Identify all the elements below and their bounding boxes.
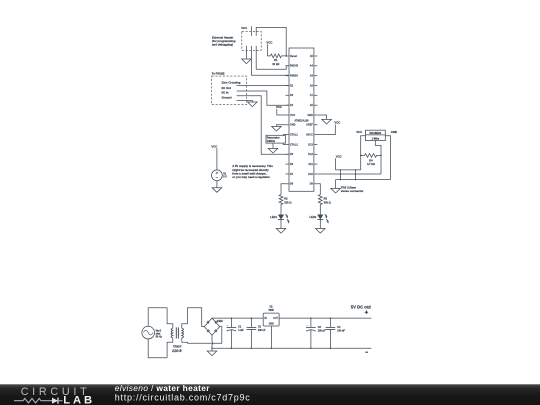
junction U1 GND rail xyxy=(271,347,273,349)
wire XTAL2 to resonator xyxy=(283,143,285,144)
wire XTAL1 to resonator xyxy=(283,134,285,137)
svg-text:D7: D7 xyxy=(290,173,294,176)
regulator U1 7805 body xyxy=(263,313,279,326)
svg-text:D9: D9 xyxy=(310,183,314,186)
sensor U3 DS18B20 body xyxy=(365,130,385,140)
wire D9 to R3 xyxy=(317,184,320,195)
svg-text:To PS02B: To PS02B xyxy=(212,71,225,75)
svg-text:Reset: Reset xyxy=(290,55,297,58)
label C3 100 uF xyxy=(318,326,326,333)
ground (U2 left) xyxy=(272,126,282,131)
svg-text:LED2: LED2 xyxy=(310,215,317,219)
svg-text:VCC: VCC xyxy=(211,144,217,148)
label C2 100 nF xyxy=(258,326,266,333)
svg-text:I/O In: I/O In xyxy=(222,91,229,95)
svg-text:D8: D8 xyxy=(290,183,294,186)
label C4 100 nF xyxy=(337,326,345,333)
wire resonator ground stem xyxy=(272,143,274,148)
svg-text:PMISO: PMISO xyxy=(290,75,298,78)
svg-text:7805: 7805 xyxy=(268,309,274,312)
U2 right pin stubs xyxy=(314,56,318,184)
svg-text:Resonator: Resonator xyxy=(267,136,280,140)
label TRNSF 220:5 xyxy=(172,345,182,353)
label TRS 3.5mm stereo connector xyxy=(341,185,365,193)
svg-text:10 kΩ: 10 kΩ xyxy=(272,62,279,66)
op-amp U2 ATMEGA168 body xyxy=(289,48,314,191)
svg-text:DBR: DBR xyxy=(217,319,223,323)
LED2 xyxy=(317,214,328,223)
capacitor C4 100 nF xyxy=(326,318,336,348)
wire Ground net xyxy=(237,100,253,102)
svg-text:VCC: VCC xyxy=(276,105,282,109)
svg-text:GND: GND xyxy=(290,124,296,127)
svg-text:A0: A0 xyxy=(310,104,314,107)
svg-text:and debugging): and debugging) xyxy=(212,43,233,47)
junction R4 right xyxy=(380,155,382,157)
svg-text:100 nF: 100 nF xyxy=(337,330,345,333)
svg-text:ATMEGA168: ATMEGA168 xyxy=(294,120,309,123)
svg-text:C3: C3 xyxy=(318,326,322,329)
wire R2 to LED1 xyxy=(280,205,282,215)
svg-text:OUT: OUT xyxy=(273,318,278,320)
junction Reset node xyxy=(285,55,287,57)
svg-text:AREF: AREF xyxy=(306,124,313,127)
wire I/O Out to D4 xyxy=(237,91,289,105)
wire VCC to U2 xyxy=(277,109,286,115)
note: External Header label xyxy=(212,35,236,46)
junction R4 left xyxy=(360,155,362,157)
svg-text:100 nF: 100 nF xyxy=(258,329,266,332)
wire VCC to R1 xyxy=(267,44,270,56)
resonator X1 body xyxy=(266,135,286,143)
wire I/O In to D5 xyxy=(237,96,289,155)
ground (header) xyxy=(242,59,252,64)
wire TRS data from U2 D10 xyxy=(317,173,381,175)
svg-text:I/O Out: I/O Out xyxy=(222,86,231,90)
note: 5V supply comment xyxy=(232,164,273,179)
wire Zero Crossing to D2 xyxy=(237,85,289,87)
svg-text:GND: GND xyxy=(391,130,397,134)
svg-text:330 Ω: 330 Ω xyxy=(284,200,291,204)
svg-text:5V DC out: 5V DC out xyxy=(351,305,372,310)
svg-text:http://circuitlab.com/c7d7p9c: http://circuitlab.com/c7d7p9c xyxy=(115,392,251,402)
label plus terminal xyxy=(365,311,368,314)
U2 left pin labels xyxy=(290,55,298,186)
svg-text:IN: IN xyxy=(264,318,267,320)
svg-text:330 Ω: 330 Ω xyxy=(324,200,331,204)
wire R3 to LED2 xyxy=(319,205,321,215)
svg-text:4.7 kΩ: 4.7 kΩ xyxy=(367,162,375,166)
svg-text:A3: A3 xyxy=(310,75,314,78)
wire DS18B20 DQ xyxy=(375,141,381,174)
svg-text:D3: D3 xyxy=(290,94,294,97)
connector J2 TRS contacts xyxy=(340,169,356,180)
wire VCC to V1 xyxy=(216,148,218,170)
wire Vac1 top to transformer xyxy=(148,308,167,327)
wire Vac1 bottom to transformer xyxy=(148,339,167,358)
svg-text:XTAL2: XTAL2 xyxy=(290,143,298,146)
ground (resonator) xyxy=(268,148,278,153)
U1 pin labels xyxy=(264,318,278,326)
resistor R1 xyxy=(270,54,286,58)
junction bridge minus rail xyxy=(211,347,213,349)
svg-text:A2: A2 xyxy=(310,84,314,87)
svg-text:D6: D6 xyxy=(290,163,294,166)
AC source Vac1 xyxy=(142,326,163,339)
rectifier DBR xyxy=(204,318,219,335)
svg-text:VCC: VCC xyxy=(241,26,247,30)
wire MISO header to chip xyxy=(251,74,289,76)
wire transformer to bridge AC2 xyxy=(187,327,221,344)
wire U2 GND right xyxy=(317,115,326,119)
ground (bridge) xyxy=(207,351,217,356)
ground (U2 right) xyxy=(322,119,332,124)
label U1 7805 xyxy=(268,306,274,312)
svg-text:R3: R3 xyxy=(324,197,328,201)
connector J1 dashed outline xyxy=(242,31,261,50)
wire header to Reset net xyxy=(256,27,286,56)
capacitor C2 100 nF xyxy=(247,318,257,348)
svg-text:1-Wire: 1-Wire xyxy=(371,137,379,140)
wire TRS tip xyxy=(336,158,361,170)
svg-text:GND: GND xyxy=(307,114,313,117)
LED1 xyxy=(278,214,289,223)
wire U1 GND xyxy=(271,326,273,348)
svg-text:5 V: 5 V xyxy=(223,176,227,179)
svg-text:VCC: VCC xyxy=(336,154,342,158)
capacitor C1 1 mF xyxy=(227,318,237,348)
label R3 330 xyxy=(324,197,331,205)
svg-text:A5: A5 xyxy=(310,55,314,58)
svg-text:Ground: Ground xyxy=(222,95,232,99)
wire VCC to AVCC xyxy=(317,125,335,135)
wire transformer to bridge AC1 xyxy=(187,308,204,327)
logo resistor-diode squiggle xyxy=(14,398,63,404)
U2 right pin labels xyxy=(306,55,314,186)
svg-text:Zero Crossing: Zero Crossing xyxy=(222,80,241,84)
svg-text:A1: A1 xyxy=(310,94,314,97)
svg-text:D2: D2 xyxy=(290,84,294,87)
wire bridge minus with hop xyxy=(211,335,214,348)
transformer T1 xyxy=(167,308,187,358)
svg-text:D11: D11 xyxy=(308,163,313,166)
svg-text:D12: D12 xyxy=(308,153,313,156)
label minus terminal xyxy=(365,351,368,353)
ground (V1) xyxy=(212,188,222,193)
svg-text:R2: R2 xyxy=(284,197,288,201)
ground (PS02B) xyxy=(248,102,258,107)
svg-text:1 mF: 1 mF xyxy=(238,329,244,332)
resistor R2 xyxy=(279,194,283,205)
label C1 1 mF xyxy=(238,326,244,333)
wire top rail U1 to output xyxy=(279,317,371,319)
wire MOSI header to chip xyxy=(256,66,289,70)
svg-text:DS18B20: DS18B20 xyxy=(369,131,381,135)
wire bottom rail xyxy=(212,347,371,349)
label R1 10 k xyxy=(272,58,279,66)
svg-text:AVCC: AVCC xyxy=(306,134,313,137)
U2 left pin stubs xyxy=(286,56,290,184)
svg-text:D13: D13 xyxy=(308,143,313,146)
svg-text:VCC: VCC xyxy=(356,130,362,134)
wire LED2 to ground xyxy=(319,219,321,228)
ground (LED1) xyxy=(276,229,286,234)
wire DS18B20 GND to sleeve xyxy=(385,136,390,180)
svg-text:C2: C2 xyxy=(258,326,262,329)
label DS18B20 1-Wire xyxy=(369,131,381,140)
svg-text:D10: D10 xyxy=(308,173,313,176)
header top pin stubs J1 xyxy=(250,26,252,36)
label R2 330 xyxy=(284,197,291,205)
wire top rail to U1 xyxy=(212,317,263,319)
svg-text:R1: R1 xyxy=(274,58,278,62)
wire TRS ground stem xyxy=(335,180,337,189)
voltage source V1 5 V xyxy=(212,170,228,181)
capacitor C3 100 uF xyxy=(306,318,316,348)
svg-text:16MHz: 16MHz xyxy=(267,139,276,143)
resistor R3 xyxy=(318,194,322,205)
svg-text:VCC: VCC xyxy=(334,121,340,125)
svg-text:C4: C4 xyxy=(337,326,341,329)
label R4 4.7 k xyxy=(367,158,375,165)
svg-text:stereo connector: stereo connector xyxy=(341,189,365,193)
label Resonator 16MHz xyxy=(267,136,280,144)
wire TRS sleeve xyxy=(336,179,391,181)
ground (LED2) xyxy=(316,229,326,234)
svg-text:LED1: LED1 xyxy=(270,215,277,219)
connector PS02B dashed outline xyxy=(212,76,247,105)
svg-text:D5: D5 xyxy=(290,153,294,156)
wire V1 to ground xyxy=(216,181,218,188)
resistor R4 xyxy=(361,154,381,158)
svg-text:220:5: 220:5 xyxy=(172,349,181,353)
wire D8 to R2 xyxy=(281,184,286,195)
wire bridge ground stem xyxy=(211,348,213,351)
svg-text:R4: R4 xyxy=(369,158,373,162)
svg-text:100 µF: 100 µF xyxy=(318,330,326,333)
svg-text:GND: GND xyxy=(269,324,274,326)
header bottom pin stubs xyxy=(246,46,256,75)
wire LED1 to ground xyxy=(280,219,282,228)
svg-text:XTAL1: XTAL1 xyxy=(290,134,298,137)
svg-text:PMOSI: PMOSI xyxy=(290,65,298,68)
svg-text:C1: C1 xyxy=(238,326,242,329)
svg-text:VCC: VCC xyxy=(267,41,273,45)
svg-text:TRNSF: TRNSF xyxy=(173,345,182,348)
svg-text:or you may need a regulator.: or you may need a regulator. xyxy=(232,175,270,179)
svg-text:D4: D4 xyxy=(290,104,294,107)
wire U2 GND left xyxy=(276,125,285,127)
svg-text:50 Hz: 50 Hz xyxy=(156,335,163,338)
svg-text:A4: A4 xyxy=(310,65,314,68)
footer bar xyxy=(0,384,540,405)
wire DS18B20 VCC down to TRS tip xyxy=(361,136,366,170)
svg-text:VCC: VCC xyxy=(290,114,295,117)
svg-text:LAB: LAB xyxy=(63,394,95,405)
ground (TRS) xyxy=(331,188,341,193)
